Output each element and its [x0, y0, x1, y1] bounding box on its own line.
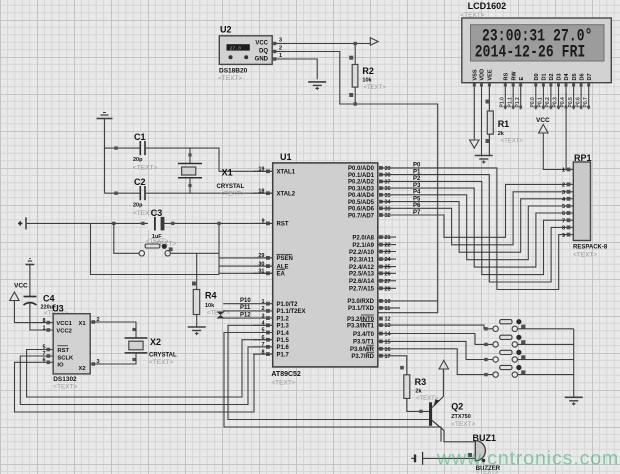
wire LCD pin E net P1.2: [515, 83, 522, 110]
wire P0.2 bus to RP1 pin 7: [380, 181, 563, 274]
svg-text:P2.0/A8: P2.0/A8: [352, 235, 374, 241]
U1 pin 39 P0.0/AD0: [348, 166, 391, 172]
svg-text:<TEXT>: <TEXT>: [218, 75, 242, 82]
wire R1 bottom to ground: [488, 134, 490, 155]
svg-text:P1.0/T2: P1.0/T2: [277, 302, 299, 308]
svg-text:P1.2: P1.2: [515, 97, 521, 108]
U2 pin 1 GND stub: [272, 53, 286, 61]
svg-text:P2.3/A11: P2.3/A11: [349, 257, 374, 263]
svg-text:22: 22: [385, 243, 391, 249]
svg-text:D1: D1: [542, 73, 548, 80]
svg-text:<TEXT>: <TEXT>: [271, 380, 295, 387]
svg-text:P0.4/AD4: P0.4/AD4: [348, 193, 375, 199]
pin marker R4 top: [192, 282, 196, 286]
svg-text:8: 8: [562, 226, 565, 232]
U1 pin 10 P3.0/RXD: [347, 299, 390, 305]
svg-text:2k: 2k: [415, 389, 422, 395]
transistor Q2 ZTX750: [429, 397, 444, 431]
wire LCD pin RS net P1.0: [500, 83, 507, 110]
svg-text:U2: U2: [220, 25, 232, 35]
svg-text:P3.7/RD: P3.7/RD: [351, 354, 374, 360]
svg-text:<TEXT>: <TEXT>: [573, 252, 597, 259]
junction R2 top: [354, 42, 357, 45]
svg-text:38: 38: [385, 173, 391, 179]
svg-text:<TEXT>: <TEXT>: [220, 191, 244, 198]
U1 pin 30 ALE: [253, 261, 289, 270]
junction buzzer pin: [468, 453, 472, 457]
RP1 pin 7: [562, 218, 573, 224]
svg-text:<TEXT>: <TEXT>: [501, 139, 524, 145]
power arrow down VSS: [470, 140, 479, 148]
svg-text:P1.0: P1.0: [500, 97, 506, 108]
U3 inside labels: [56, 321, 86, 372]
wire EA row: [219, 272, 273, 274]
wire LCD pin D6 net P0.6: [575, 83, 582, 110]
svg-text:16: 16: [385, 347, 391, 353]
svg-text:VDD: VDD: [480, 69, 486, 81]
svg-text:D2: D2: [549, 73, 555, 80]
U1 pin 27 P2.6/A14: [349, 279, 396, 285]
svg-text:37: 37: [385, 179, 391, 185]
wire U2 GND net: [286, 59, 317, 79]
svg-text:P2.7/A15: P2.7/A15: [349, 287, 375, 293]
svg-text:U3: U3: [52, 304, 64, 314]
U1 pin 2 P1.1/T2EX: [253, 306, 306, 315]
wire button right leg: [170, 252, 219, 254]
svg-text:P2.5/A13: P2.5/A13: [349, 272, 375, 278]
svg-text:3: 3: [261, 313, 264, 319]
wire LCD pin D0 net P0.0: [530, 83, 537, 110]
svg-text:RST: RST: [57, 348, 69, 354]
push button SW1: [493, 319, 526, 331]
push button SW4: [493, 365, 526, 377]
wire battery to buzzer: [423, 457, 476, 459]
svg-text:EA: EA: [277, 272, 286, 278]
svg-text:CRYSTAL: CRYSTAL: [217, 184, 245, 190]
wire P1.1 stub: [223, 310, 253, 312]
U1 pin 6 P1.5: [253, 335, 290, 344]
svg-text:CRYSTAL: CRYSTAL: [149, 353, 177, 359]
svg-text:P11: P11: [240, 305, 251, 311]
U1 pin 4 P1.3: [253, 321, 290, 330]
wire C2 to XTAL2: [145, 192, 273, 194]
svg-text:VCC2: VCC2: [56, 328, 71, 334]
wire P0.3 bus to RP1 pin 6: [380, 188, 563, 267]
svg-text:P2.2/A10: P2.2/A10: [349, 250, 375, 256]
svg-text:D3: D3: [557, 73, 563, 80]
junction button 3 left: [484, 358, 487, 361]
wire RST net rail: [26, 222, 273, 224]
wire button 4 to P3.6: [378, 349, 493, 375]
svg-text:2: 2: [261, 306, 264, 312]
svg-text:<TEXT>: <TEXT>: [364, 85, 387, 91]
pin marker R2 bottom: [349, 93, 353, 97]
wire LCD VEE to R1: [488, 83, 491, 111]
svg-text:D7: D7: [587, 73, 593, 80]
ground U2: [308, 82, 326, 90]
wire P0.1 bus to RP1 pin 8: [380, 175, 563, 282]
svg-text:RESPACK-8: RESPACK-8: [573, 245, 608, 251]
U1 pin 5 P1.4: [253, 328, 290, 337]
U1 pin 32 P0.7/AD7: [348, 213, 391, 219]
wire D4 net drop to RP1 pin1 row: [565, 92, 567, 170]
wire button 1 to ground rail: [518, 328, 574, 330]
svg-text:Q2: Q2: [451, 402, 463, 412]
svg-text:P0.1: P0.1: [538, 97, 544, 108]
svg-text:www.cntronics.com: www.cntronics.com: [436, 448, 619, 470]
svg-text:P3.1/TXD: P3.1/TXD: [348, 306, 375, 312]
svg-text:RW: RW: [511, 71, 517, 81]
wire Q2 collector to buzzer: [444, 431, 475, 442]
wire P0.7 bus to RP1 pin 2: [380, 184, 563, 237]
svg-text:28: 28: [385, 286, 391, 292]
display LCD1602 body: [462, 18, 612, 83]
U1 pin 36 P0.3/AD3: [348, 186, 391, 192]
wire U3 X1 to crystal: [101, 322, 136, 338]
U3 pin 1: [42, 326, 50, 332]
pin marker R1 top: [486, 100, 490, 104]
pin marker R1 bottom: [486, 139, 490, 143]
ground R4: [188, 327, 206, 335]
svg-text:10k: 10k: [362, 78, 372, 84]
wire RST to PSEN group vertical: [218, 223, 220, 274]
push button SW3: [493, 350, 526, 362]
wire P3.0 stub: [378, 300, 438, 302]
svg-text:P0.0/AD0: P0.0/AD0: [348, 166, 375, 172]
svg-text:D0: D0: [534, 73, 540, 80]
svg-text:12: 12: [385, 317, 391, 323]
svg-text:P10: P10: [240, 298, 251, 304]
U1 pin 16 P3.6/WR: [350, 345, 391, 353]
wire C4 top lead: [29, 265, 31, 297]
svg-text:DS1302: DS1302: [53, 376, 77, 383]
svg-text:P0.0: P0.0: [530, 97, 536, 108]
wire DQ net to P3.1: [286, 52, 438, 313]
svg-text:2: 2: [562, 183, 565, 189]
svg-text:P0.5: P0.5: [568, 97, 574, 108]
svg-text:XTAL2: XTAL2: [277, 192, 296, 198]
U1 pin 29 PSEN: [253, 253, 293, 262]
svg-text:C3: C3: [151, 208, 163, 218]
svg-text:P1.6: P1.6: [277, 345, 290, 351]
junction R3 top: [400, 366, 404, 370]
svg-text:7: 7: [562, 218, 565, 224]
resistor R4: [193, 290, 199, 315]
svg-text:R1: R1: [498, 119, 510, 129]
svg-text:35: 35: [385, 193, 391, 199]
U1 pin 12 P3.2/INT0: [347, 315, 391, 323]
svg-text:P3.2/INT0: P3.2/INT0: [347, 317, 375, 323]
svg-text:5: 5: [562, 204, 565, 210]
wire P0.6 bus to RP1 pin 3: [380, 192, 563, 245]
svg-text:<TEXT>: <TEXT>: [146, 239, 169, 245]
svg-text:26: 26: [385, 271, 391, 277]
svg-text:10k: 10k: [205, 303, 215, 309]
svg-text:8: 8: [42, 318, 45, 324]
svg-text:1: 1: [562, 168, 565, 174]
svg-text:P0.2: P0.2: [545, 97, 551, 108]
svg-text:2: 2: [97, 317, 100, 323]
U1 pin 34 P0.5/AD5: [348, 200, 392, 206]
svg-text:<TEXT>: <TEXT>: [53, 384, 77, 391]
svg-text:3: 3: [97, 359, 100, 365]
U1 pin 21 P2.0/A8: [352, 235, 396, 241]
svg-text:D6: D6: [579, 73, 585, 80]
svg-text:D5: D5: [572, 73, 578, 80]
U1 pin 22 P2.1/A9: [352, 243, 396, 249]
svg-text:<TEXT>: <TEXT>: [133, 165, 157, 172]
battery B1 backup cell: [18, 217, 26, 229]
U1 pin 24 P2.3/A11: [349, 257, 396, 263]
wire R4 bottom lead: [196, 315, 198, 328]
U1 pin 37 P0.2/AD2: [348, 179, 391, 185]
resistor R3: [404, 375, 410, 399]
svg-text:6: 6: [42, 358, 45, 364]
svg-text:VSS: VSS: [473, 69, 479, 80]
junction button 1 left: [484, 327, 487, 330]
svg-text:IO: IO: [57, 362, 64, 368]
svg-text:R4: R4: [205, 291, 217, 301]
power arrow VCC up DS1302: [10, 292, 19, 301]
svg-text:P1.7: P1.7: [277, 352, 290, 358]
svg-text:U1: U1: [280, 152, 292, 162]
RP1 pin 3: [562, 190, 573, 196]
svg-text:<TEXT>: <TEXT>: [149, 359, 173, 366]
svg-text:SCLK: SCLK: [57, 355, 74, 361]
svg-text:R2: R2: [362, 66, 374, 76]
sensor U2 DS18B20 body: [219, 36, 272, 65]
svg-text:7: 7: [42, 351, 45, 357]
svg-text:GND: GND: [255, 56, 269, 62]
RP1 pin 9: [562, 233, 573, 239]
svg-text:C1: C1: [134, 132, 146, 142]
svg-text:X2: X2: [150, 337, 161, 347]
wire C1 to XTAL1: [145, 148, 273, 171]
svg-text:D4: D4: [564, 73, 570, 81]
battery B2 buzzer supply: [411, 452, 423, 465]
svg-text:P3.4/T0: P3.4/T0: [353, 332, 375, 338]
ground C4 top: [26, 259, 35, 265]
wire button 4 to ground rail: [518, 374, 574, 376]
svg-text:25: 25: [385, 265, 391, 271]
wire buttons ground rail: [573, 329, 575, 398]
svg-text:20p: 20p: [133, 157, 143, 163]
svg-text:10: 10: [385, 299, 391, 305]
U1 pin 35 P0.4/AD4: [348, 193, 391, 199]
svg-text:VCC: VCC: [255, 40, 268, 46]
svg-text:E: E: [519, 77, 525, 81]
wire button 3 to P3.5: [378, 341, 493, 359]
svg-text:2014-12-26 FRI: 2014-12-26 FRI: [475, 42, 586, 62]
svg-text:6: 6: [562, 211, 565, 217]
svg-text:27: 27: [385, 279, 391, 285]
wire LCD pin D4 net P0.4: [560, 83, 567, 110]
wire P3.1 stub: [378, 307, 400, 309]
svg-text:33: 33: [385, 206, 391, 212]
junction C1 wire: [114, 146, 117, 149]
junction C3 right: [171, 222, 174, 225]
wire button left leg: [114, 223, 139, 253]
RP1 pin 6: [562, 211, 573, 217]
svg-text:VCC1: VCC1: [56, 321, 72, 327]
U1 pin 23 P2.2/A10: [349, 250, 396, 256]
svg-text:P3.5/T1: P3.5/T1: [353, 340, 375, 346]
wire C4 to U3 VCC2: [30, 304, 53, 331]
U3 pin 5: [41, 345, 53, 352]
svg-text:P2.1/A9: P2.1/A9: [352, 243, 374, 249]
wire LCD pin D2 net P0.2: [545, 83, 552, 110]
wire R4 top lead: [196, 253, 198, 289]
svg-text:P1.5: P1.5: [277, 338, 290, 344]
U1 pin 1 P1.0/T2: [253, 299, 298, 308]
wire U3 RST to P1.5: [27, 340, 273, 397]
svg-text:X1: X1: [79, 321, 87, 327]
svg-text:X1: X1: [222, 168, 233, 178]
capacitor C1: [140, 141, 145, 155]
svg-text:P1.1: P1.1: [507, 97, 513, 108]
wire R3 to Q2 base: [407, 398, 429, 411]
svg-text:P1.1/T2EX: P1.1/T2EX: [277, 309, 306, 315]
junction R2/DQ: [354, 102, 357, 105]
microcontroller U1 AT89C52 body: [273, 163, 378, 367]
U1 pin 28 P2.7/A15: [349, 286, 396, 292]
wire button 2 to ground rail: [518, 343, 574, 345]
capacitor C2: [140, 186, 145, 200]
U2 pin 2 DQ stub: [272, 46, 286, 54]
capacitor C3 polarized 1uF: [148, 217, 164, 231]
wire button 2 to P3.4: [378, 334, 493, 345]
power arrow VCC up: [539, 124, 548, 133]
crystal X1: [178, 148, 202, 193]
U1 pin 9 RST: [253, 219, 289, 228]
buzzer BUZ1: [475, 441, 485, 461]
svg-text:34: 34: [385, 200, 392, 206]
U1 pin 31 EA: [253, 269, 286, 278]
svg-text:LCD1602: LCD1602: [468, 1, 507, 11]
wire R2 top lead: [354, 44, 356, 65]
svg-text:23: 23: [385, 250, 391, 256]
wire P1.4 to buzzer net: [224, 333, 441, 442]
svg-text:R3: R3: [415, 377, 427, 387]
junction C3 left: [141, 222, 144, 225]
U1 pin 7 P1.6: [253, 342, 290, 351]
wire U3 SCLK to P1.6: [20, 347, 272, 405]
junction button 4 left: [484, 373, 487, 376]
U3 pin 3 X2: [90, 359, 101, 366]
svg-text:24: 24: [385, 257, 392, 263]
wire PSEN row: [219, 257, 273, 259]
svg-text:P0.6: P0.6: [575, 97, 581, 108]
svg-text:AT89C52: AT89C52: [271, 371, 301, 378]
svg-text:P0.3/AD3: P0.3/AD3: [348, 186, 375, 192]
ground crystal net: [97, 113, 113, 119]
svg-text:P3.3/INT1: P3.3/INT1: [347, 323, 375, 329]
svg-text:C4: C4: [43, 294, 55, 304]
svg-text:32: 32: [385, 213, 391, 219]
wire EA net bottom rail: [91, 223, 220, 274]
svg-text:2k: 2k: [498, 131, 505, 137]
svg-text:ZTX750: ZTX750: [451, 414, 471, 420]
svg-text:21: 21: [385, 235, 391, 241]
pin marker R2 top: [349, 56, 353, 60]
junction RST vertical: [217, 222, 220, 225]
U1 pin 17 P3.7/RD: [351, 352, 390, 360]
push button RESET: [139, 244, 173, 256]
wire button 1 to P3.3: [378, 325, 493, 329]
pin marker X2 top: [132, 328, 135, 331]
svg-text:9: 9: [562, 233, 565, 239]
svg-text:X2: X2: [79, 366, 86, 372]
svg-text:P0.7/AD7: P0.7/AD7: [348, 213, 375, 219]
bowtie junction marker P1 nets: [216, 312, 224, 319]
svg-text:P0.7: P0.7: [583, 97, 589, 108]
svg-text:P0.4: P0.4: [560, 97, 566, 108]
RP1 pin 8: [562, 226, 573, 232]
wire LCD pin D1 net P0.1: [538, 83, 545, 110]
wire LCD VDD: [480, 83, 483, 156]
wire crystal to U3 X2: [101, 353, 136, 364]
wire R2 bottom lead: [354, 87, 356, 104]
svg-text:P1.3: P1.3: [277, 324, 290, 330]
RTC U3 DS1302 body: [53, 314, 90, 374]
svg-text:RS: RS: [504, 73, 510, 81]
svg-text:14: 14: [385, 332, 392, 338]
U3 pin 2 X1: [90, 317, 101, 324]
svg-text:P0.5/AD5: P0.5/AD5: [348, 200, 375, 206]
svg-text:<TEXT>: <TEXT>: [476, 470, 499, 474]
pin marker X2 bottom: [132, 358, 135, 361]
resistor R1: [487, 111, 493, 134]
svg-text:P2.6/A14: P2.6/A14: [349, 279, 375, 285]
U1 pin 33 P0.6/AD6: [348, 206, 391, 212]
svg-text:15: 15: [385, 339, 391, 345]
crystal X2: [125, 338, 148, 353]
push button SW2: [493, 335, 526, 347]
U1 pin 26 P2.5/A13: [349, 271, 396, 277]
U3 pin 8: [42, 318, 50, 324]
U1 pin 19 XTAL1: [253, 167, 296, 176]
U3 pin 7: [41, 351, 53, 358]
svg-text:1: 1: [42, 326, 45, 332]
svg-text:3: 3: [279, 38, 282, 44]
U1 pin 38 P0.1/AD1: [348, 173, 391, 179]
wire P3.7 to R3: [378, 356, 407, 375]
svg-text:DS18B20: DS18B20: [219, 68, 248, 75]
svg-text:3: 3: [562, 190, 565, 196]
wire ground stem / C1-C2 left rail: [104, 119, 106, 194]
U3 pin 6: [41, 358, 53, 365]
svg-text:20p: 20p: [133, 203, 143, 209]
svg-text:P0.2/AD2: P0.2/AD2: [348, 180, 375, 186]
wire LCD pin D7 net P0.7: [583, 83, 590, 110]
RP1 pin 5: [562, 204, 573, 210]
power arrow VCC right: [370, 38, 378, 46]
svg-text:2: 2: [279, 46, 282, 52]
svg-text:XTAL1: XTAL1: [277, 170, 296, 176]
wire VCC to U3 VCC1: [14, 301, 53, 323]
power arrow VCC up Q2 emitter: [439, 360, 448, 369]
wire LCD pin D3 net P0.3: [553, 83, 560, 110]
svg-text:PSEN: PSEN: [277, 256, 293, 262]
U1 pin 8 P1.7: [253, 349, 290, 358]
wire U2 VCC net: [286, 43, 370, 45]
capacitor C4 220uF: [24, 297, 37, 306]
wire LCD pin RW net P1.1: [507, 83, 514, 110]
U1 pin 3 P1.2: [253, 313, 290, 322]
svg-text:39: 39: [385, 166, 391, 172]
wire C2 left: [105, 192, 140, 194]
svg-text:P12: P12: [240, 312, 251, 318]
